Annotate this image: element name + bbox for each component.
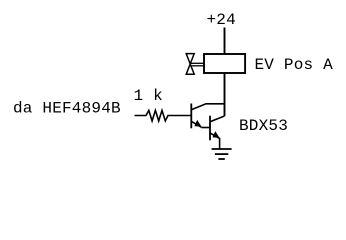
svg-text:1 k: 1 k bbox=[134, 87, 163, 105]
svg-text:EV Pos A: EV Pos A bbox=[255, 56, 334, 74]
svg-text:+24: +24 bbox=[207, 11, 236, 29]
svg-text:BDX53: BDX53 bbox=[239, 117, 288, 135]
svg-text:da HEF4894B: da HEF4894B bbox=[13, 100, 121, 118]
